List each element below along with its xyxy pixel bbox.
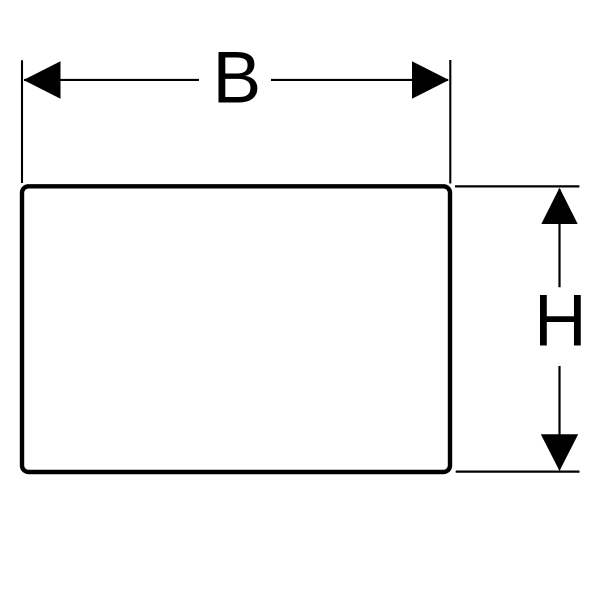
extension line top (for H)	[455, 185, 579, 187]
dimension line B right segment	[271, 79, 448, 81]
arrowhead B left	[24, 61, 61, 98]
svg-text:H: H	[534, 281, 587, 362]
arrowhead H bottom	[541, 434, 578, 471]
svg-text:B: B	[213, 37, 262, 118]
product body outline (rounded rectangle)	[22, 186, 450, 472]
arrowhead H top	[541, 188, 577, 224]
dimension line H upper segment	[558, 189, 560, 287]
dimension line B left segment	[24, 79, 199, 81]
dimension line H lower segment	[558, 366, 560, 470]
extension line left (for B)	[21, 60, 23, 183]
arrowhead B right	[412, 61, 449, 98]
extension line bottom (for H)	[456, 471, 580, 473]
extension line right (for B)	[449, 60, 451, 184]
